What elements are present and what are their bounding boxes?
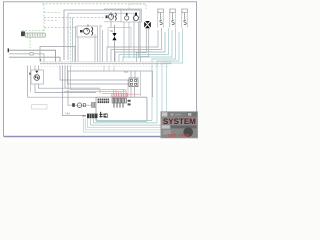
sensor B1 <box>158 9 163 28</box>
wire motor M3 lead 2 <box>128 22 130 58</box>
watermark logo SYSTEM <box>161 112 198 138</box>
wire green dashed vertical to terminal strip <box>70 18 72 62</box>
connector X5 block <box>87 114 98 119</box>
svg-text:TE: TE <box>110 29 114 33</box>
wire pump lead 1 <box>94 34 96 62</box>
wire riser c <box>77 37 79 62</box>
wire stubs below strip <box>104 66 114 72</box>
motor M5 enclosure <box>31 70 44 84</box>
wire corner right 1 <box>107 30 158 62</box>
wire corner right 2 <box>111 28 162 62</box>
wire corner right 3 <box>115 32 165 62</box>
motor box M3/M4 <box>121 9 142 22</box>
wire left loop lower <box>32 105 48 109</box>
svg-text:COD. 70008: COD. 70008 <box>168 133 189 137</box>
wire below strip 2 (to T/N) <box>63 66 87 116</box>
wire corner right 6 <box>152 28 176 121</box>
relay block K1 <box>98 99 110 104</box>
wire below strip 5 <box>71 66 101 90</box>
wire valve lead top <box>114 25 116 33</box>
wire enclosure inner right <box>140 71 142 96</box>
lamp E1 terminals <box>72 103 75 107</box>
page frame (decorative) <box>4 2 197 137</box>
wire corner right 7 <box>157 32 179 123</box>
wire M5 below 1 <box>35 84 96 92</box>
connector X1 strip <box>25 33 46 37</box>
wire teal harness extra 2 <box>84 118 193 132</box>
wire green dashed lower <box>44 27 76 29</box>
wire teal drop extra <box>166 64 168 128</box>
wire riser b <box>75 26 77 62</box>
svg-text:1: 1 <box>40 58 42 62</box>
X5 side marks <box>99 114 102 115</box>
terminal strip X2 <box>40 62 172 64</box>
wire component row feed <box>68 95 96 105</box>
fan FN1 <box>144 21 151 28</box>
connector X4 on board <box>112 98 127 103</box>
valve Y1 <box>112 33 116 40</box>
wire below strip 6 <box>64 91 101 93</box>
wire TR bottom lead 1 <box>130 87 132 97</box>
sensor B3 <box>182 9 187 28</box>
pump M1 box <box>77 26 98 37</box>
wire fan lead 1 <box>137 29 147 62</box>
wire pump lead 4 <box>102 30 104 62</box>
wire TR bottom lead 2 <box>134 87 136 97</box>
wire corner right 4 <box>119 28 169 62</box>
wire TR side lead <box>127 80 129 97</box>
wire green dashed box above motors <box>129 4 146 9</box>
lamp E1 <box>77 103 82 108</box>
wire motor M3 lead <box>123 22 125 58</box>
wire supply line 1 <box>9 50 56 61</box>
pump M1 <box>84 28 90 34</box>
wire green dashed vertical riser <box>43 4 45 33</box>
wire corner right 5 <box>123 30 172 62</box>
sensor B2 <box>170 9 175 28</box>
wire below strip 1 <box>60 66 129 81</box>
wire green dashed stub below connector X1 <box>29 38 31 50</box>
transformer TR <box>129 78 138 87</box>
wire teal harness extra 1 <box>85 118 193 129</box>
wire M5 below 2 <box>39 84 101 88</box>
wire riser a <box>72 18 74 62</box>
valve TE enclosure <box>108 28 131 48</box>
wire TR top lead 1 <box>130 71 132 78</box>
svg-text:T/N: T/N <box>65 112 70 116</box>
wire motor M4 lead <box>138 22 140 58</box>
wire M5 lead 1 <box>34 66 36 71</box>
wire inner enclosure bottom <box>104 21 121 23</box>
connector X3 pink <box>112 94 127 97</box>
board marks <box>128 100 131 102</box>
inline fuse on supply line 2 <box>30 53 33 55</box>
motor M2 <box>108 14 113 19</box>
wire green dashed mid <box>44 12 60 14</box>
wire supply line 3 <box>9 57 60 61</box>
wire below strip 3 <box>65 66 100 89</box>
resistor R1 hatched block <box>92 103 104 108</box>
wire bus above motors <box>104 8 121 10</box>
wire valve lead bottom <box>114 40 116 61</box>
wire strip-left riser 2 <box>30 66 32 93</box>
wire pump lead 2 <box>97 37 99 62</box>
wire TR top lead 2 <box>134 71 136 78</box>
svg-text:B: B <box>87 23 89 27</box>
supply terminal L ticks <box>8 48 9 52</box>
wire M5 lead 2 <box>38 66 40 71</box>
connector X1 dark end block <box>21 31 25 36</box>
svg-text:SYSTEM: SYSTEM <box>163 117 196 126</box>
wire fan lead 2 <box>141 29 149 62</box>
wire green dashed <box>44 17 113 19</box>
wire corner right 8 <box>162 28 183 125</box>
wire pink harness <box>100 90 140 97</box>
wire green dashed above X1 <box>22 30 45 32</box>
wire strip-left riser 1 <box>28 66 97 98</box>
enclosure box inner <box>68 13 134 60</box>
wire teal harness bottom <box>97 118 153 120</box>
wire green dashed control bus top <box>42 3 146 5</box>
wire green dashed mid2 <box>44 20 58 22</box>
motor M5 <box>34 75 40 81</box>
controller board A1 <box>96 97 147 121</box>
motor M4 <box>134 16 139 21</box>
wire below strip 4 <box>68 66 130 85</box>
wire pump lead 3 <box>99 25 101 62</box>
enclosure box outer <box>64 10 140 60</box>
enclosure bottom section <box>68 71 153 97</box>
svg-text:24: 24 <box>82 114 86 118</box>
wire supply line 2 <box>9 54 44 62</box>
motor M3 <box>125 16 129 20</box>
wire corner feed to terminal 1 <box>40 46 75 61</box>
